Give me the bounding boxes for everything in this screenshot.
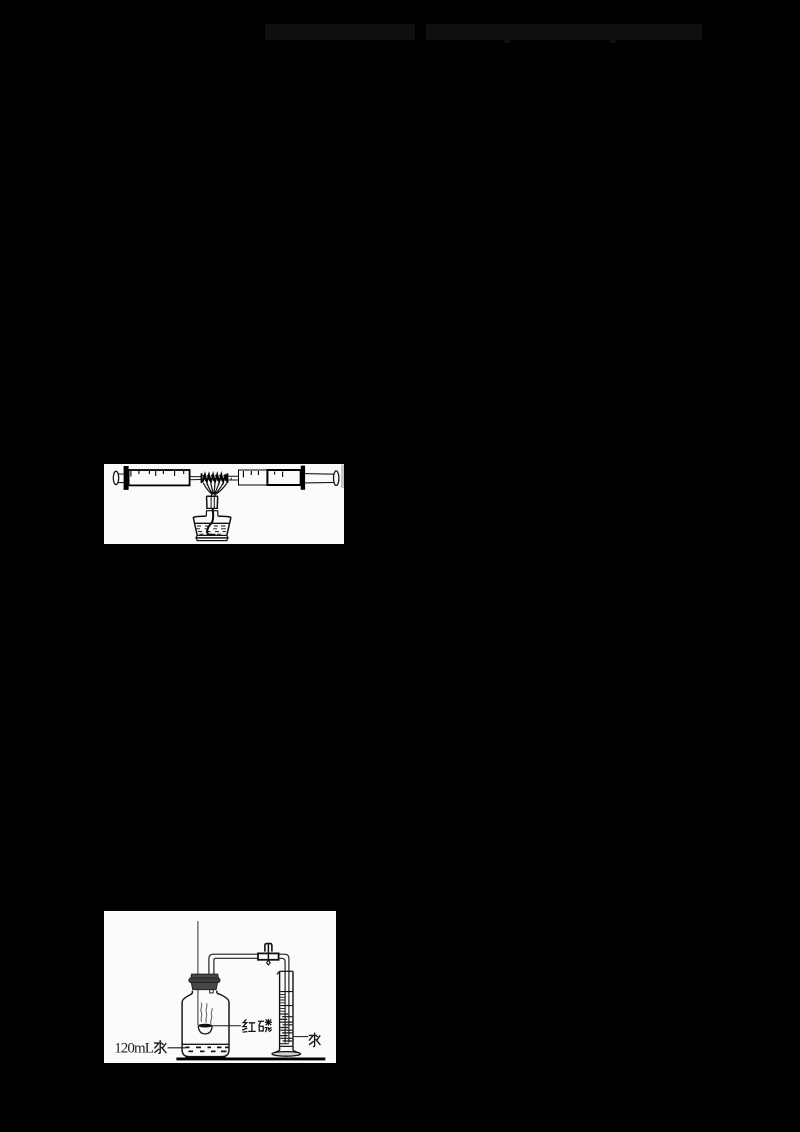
lamp wick inside bbox=[207, 508, 213, 533]
stopcock stem bbox=[267, 944, 269, 963]
lamp base bbox=[196, 535, 228, 538]
right syringe scale ticks bbox=[243, 471, 282, 478]
scan artifact gray strip bbox=[341, 464, 344, 488]
coil left end bar bbox=[200, 473, 202, 483]
gas bottle body bbox=[182, 991, 229, 1057]
stopcock valve body bbox=[258, 953, 279, 959]
lamp collar bbox=[206, 508, 218, 510]
measuring cylinder right wall bbox=[292, 971, 294, 1050]
left nozzle tube bbox=[190, 476, 201, 479]
cylinder minor graduations bbox=[280, 994, 285, 1011]
combustion spoon bowl bbox=[198, 1026, 212, 1034]
stopcock knob bbox=[264, 944, 271, 952]
lamp neck bbox=[206, 496, 218, 508]
lamp fuel line bbox=[194, 522, 229, 524]
highlighted title bar segment 2 bbox=[426, 24, 702, 41]
label lin (phosphorus) glyph bbox=[258, 1019, 272, 1032]
left syringe scale ticks bbox=[131, 471, 184, 477]
stopcock drip tip bbox=[266, 960, 270, 965]
rubber stopper taper bbox=[191, 983, 217, 990]
measuring cylinder rim bbox=[279, 970, 292, 972]
pointer line to red phosphorus label bbox=[212, 1025, 241, 1027]
lamp fuel dashes bbox=[196, 526, 226, 534]
label shui (water) left glyph bbox=[154, 1040, 166, 1053]
rubber stopper flange bbox=[188, 978, 219, 983]
cylinder foot flare bbox=[272, 1050, 300, 1053]
elbow delivery tube outer wall bbox=[208, 954, 288, 1042]
right syringe plunger cap bbox=[333, 470, 338, 485]
pointer line to water label bbox=[293, 1036, 308, 1038]
pointer line to bottle water bbox=[167, 1047, 185, 1049]
left syringe flange bar bbox=[123, 466, 128, 490]
elbow delivery tube inner wall bbox=[213, 958, 284, 1042]
flame tip crossing bbox=[211, 494, 216, 496]
comma descender 1 bbox=[504, 40, 512, 43]
right syringe flange bar bbox=[300, 465, 304, 489]
comma descender 2 bbox=[609, 40, 617, 43]
figure 1: syringe / coil / alcohol lamp apparatus bbox=[104, 464, 344, 544]
cylinder water hatching bbox=[280, 1014, 292, 1046]
right connecting tube bbox=[228, 476, 238, 480]
right syringe plunger rod bbox=[305, 473, 334, 482]
label hong (red) glyph bbox=[242, 1019, 256, 1032]
bottle water dashes bbox=[185, 1047, 229, 1051]
figure 2: bottle / measuring cylinder apparatus bbox=[104, 911, 336, 1063]
combustion spoon handle bbox=[196, 921, 198, 1025]
right syringe barrel front bbox=[238, 470, 267, 485]
cylinder base bbox=[272, 1052, 301, 1057]
right syringe barrel plunger section bbox=[267, 470, 300, 485]
left syringe plunger rod bbox=[118, 474, 123, 483]
measuring cylinder spout bbox=[276, 971, 279, 974]
svg-text:120mL: 120mL bbox=[114, 1040, 154, 1056]
tube stub below stopper bbox=[209, 990, 213, 993]
flame fan under coil bbox=[203, 483, 227, 495]
red phosphorus sample bbox=[198, 1024, 212, 1028]
cylinder major graduations bbox=[280, 992, 292, 1006]
highlighted title bar segment 1 bbox=[265, 24, 415, 41]
coil right end bar bbox=[226, 473, 228, 483]
tube break mark bbox=[230, 477, 233, 479]
heated coil spring bbox=[203, 474, 227, 482]
rubber stopper top cap bbox=[190, 974, 218, 978]
bottle water surface line bbox=[182, 1043, 229, 1045]
lamp body bbox=[193, 516, 231, 535]
bottle base shadow bbox=[185, 1056, 225, 1058]
smoke wisps bbox=[200, 1003, 201, 1022]
left syringe barrel bbox=[128, 470, 189, 485]
measuring cylinder left wall bbox=[278, 971, 280, 1050]
ground line bbox=[176, 1057, 325, 1060]
left syringe plunger cap bbox=[113, 471, 118, 484]
label shui (water) right glyph bbox=[308, 1033, 320, 1047]
lamp wick channel bbox=[211, 496, 214, 508]
